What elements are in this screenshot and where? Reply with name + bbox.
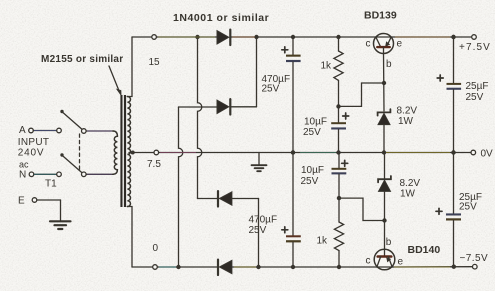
ground symbol mid [252,153,267,172]
wire top rail left [132,35,217,40]
node D1-cathode rail junction [254,35,258,39]
svg-text:1W: 1W [400,189,416,200]
wire switch to primary bottom [86,173,113,175]
wire top rail right [391,36,472,38]
zener D5 8.2V top [378,109,391,155]
wire E to ground [60,200,62,221]
label 15 [149,57,161,68]
svg-text:1k: 1k [321,61,333,72]
svg-text:0V: 0V [481,149,494,160]
transformer T1 primary winding [113,131,117,174]
svg-text:7.5: 7.5 [147,159,161,170]
node base R2/C4 junction [337,196,341,200]
svg-text:BD140: BD140 [408,244,441,256]
switch link dashed [79,134,81,171]
terminal N [19,170,61,181]
wire bottom rail right [392,266,473,268]
svg-text:e: e [398,257,404,268]
label C1 470uF 25V [262,74,291,95]
ground earth symbol [50,221,71,229]
wire Q1 base down [383,54,386,111]
svg-text:b: b [386,237,392,248]
wire D2 anode feed [179,106,218,108]
terminal -7.5V [460,253,489,269]
capacitor C3 10uF top [331,113,349,155]
svg-text:8.2V: 8.2V [397,106,418,117]
wire 0V line from center tap [129,150,471,155]
label C4 10uF 25V [301,165,325,187]
svg-text:25V: 25V [301,176,319,187]
svg-text:c: c [366,256,371,267]
zener D6 8.2V bottom [378,153,391,221]
node 0-end junction [176,265,180,269]
capacitor C5 25uF top [437,35,461,155]
label D6 8.2V 1W [400,178,421,200]
svg-text:240V: 240V [18,148,45,159]
label Q2 pins b c e [366,237,404,268]
diode D4 [218,260,377,275]
label BD139 [364,10,397,22]
wire colour tints (scan chroma artifacts) [34,37,450,267]
svg-text:1W: 1W [398,116,414,127]
terminal +7.5V [459,35,491,53]
label C6 25uF 25V [459,192,482,213]
capacitor C2 470uF bottom [282,150,301,269]
svg-text:25µF: 25µF [466,81,489,92]
label R2 1k [317,236,329,247]
svg-text:470µF: 470µF [249,215,278,226]
transformer core [120,95,126,207]
svg-text:b: b [386,59,392,70]
node base R1/C3 junction [336,104,340,108]
label 7.5 [147,159,161,170]
wire top rail middle [257,36,376,38]
capacitor C6 25uF bottom [436,153,461,267]
label C3 10uF 25V [303,117,327,139]
wire D3 anode down to neg rail [258,199,260,268]
switch pole A [60,110,86,134]
svg-text:8.2V: 8.2V [400,178,421,189]
svg-text:1k: 1k [317,236,329,247]
svg-text:25V: 25V [466,92,484,103]
svg-text:e: e [397,39,403,50]
wire bottom rail left [132,265,217,270]
wire D2 cathode up to rail [256,37,258,107]
node top-15 junction [195,35,199,39]
label BD140 [408,244,441,256]
svg-text:c: c [366,39,371,50]
label 0 [153,243,159,254]
svg-text:N: N [19,170,26,181]
svg-text:25V: 25V [303,127,321,138]
capacitor C1 470uF top [282,35,301,155]
svg-text:T1: T1 [45,179,57,190]
svg-text:25V: 25V [262,84,280,95]
label C2 470uF 25V [249,215,278,237]
label Q1 pins c e b [366,39,403,71]
svg-text:INPUT: INPUT [18,137,50,148]
node +7.5V junction [451,35,455,39]
svg-text:+7.5V: +7.5V [459,42,491,53]
arrow to transformer [109,66,122,97]
diode D2 [217,99,257,114]
svg-text:ac: ac [19,160,29,170]
svg-text:25V: 25V [459,202,477,213]
transistor Q1 BD139 [374,34,394,54]
svg-text:10µF: 10µF [304,117,327,128]
node 0V 25uF junction [451,150,455,154]
label 1N4001 [173,12,269,24]
label R1 1k [321,61,333,72]
wire D3 cathode from 15-end [198,198,217,200]
wire Q2 base down [384,221,386,250]
terminal 0V [471,149,493,160]
node base junction BD139 [382,81,386,85]
diode D1 [217,30,257,45]
label INPUT 240V ac [18,137,50,170]
terminal A [19,125,61,136]
capacitor C4 10uF bottom [332,153,348,199]
label D5 8.2V 1W [397,106,418,128]
transistor Q2 BD140 [374,249,395,270]
svg-text:A: A [19,125,26,136]
label C5 25uF 25V [466,81,489,103]
terminal E [18,196,61,207]
wire base link bottom [339,198,385,220]
svg-text:M2155 or similar: M2155 or similar [41,54,123,65]
svg-text:1N4001 or similar: 1N4001 or similar [173,12,269,24]
svg-text:0: 0 [153,243,159,254]
transformer secondary winding [127,97,130,207]
svg-text:25V: 25V [249,225,267,236]
node -7.5V junction [452,265,456,269]
svg-text:10µF: 10µF [301,165,324,176]
switch pole N [60,153,86,176]
wire secondary top lead [127,37,132,97]
wire vertical 15-end to D3 with hops [198,37,202,199]
wire secondary bottom lead [127,207,132,268]
wire base link top [339,83,385,106]
label M2155 [41,54,123,65]
wire switch to primary top [86,130,113,132]
node D3-D4 neg rail junction [256,265,260,269]
svg-text:15: 15 [149,57,161,68]
svg-text:E: E [18,196,25,207]
resistor R2 1k bottom [334,198,343,269]
svg-text:BD139: BD139 [364,10,397,22]
svg-text:−7.5V: −7.5V [460,253,489,264]
resistor R1 1k top [334,35,343,122]
wire 0-end feed vertical with hop [179,107,183,267]
label T1 [45,179,57,190]
node base junction BD140 [382,218,386,222]
diode D3 [218,191,259,206]
